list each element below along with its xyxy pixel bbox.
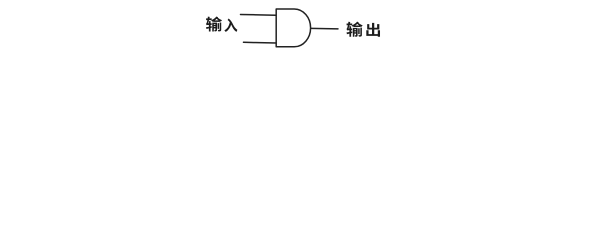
- label 输入 (input), char 入: [224, 19, 237, 32]
- label 输出 (output), char 输: [346, 22, 362, 37]
- label 输入 (input), char 输: [206, 17, 222, 32]
- wire output: [311, 27, 338, 30]
- AND gate: [276, 9, 310, 47]
- label 输出 (output), char 出: [366, 23, 380, 37]
- wire lower input: [244, 41, 277, 44]
- wire upper input: [241, 14, 277, 17]
